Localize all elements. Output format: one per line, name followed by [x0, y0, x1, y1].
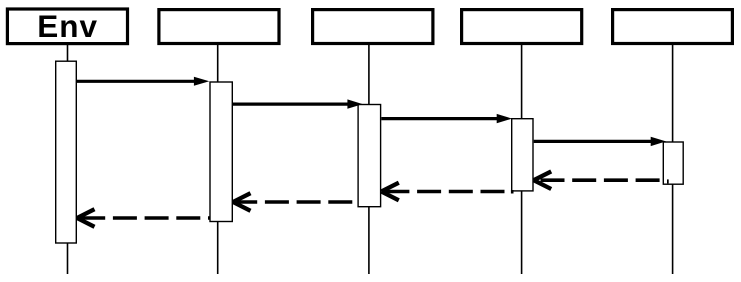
return arrow 2 (3 to 2): [233, 193, 357, 211]
activation bar 3: [358, 105, 381, 207]
call arrow 4 (4 to 5): [534, 137, 666, 146]
activation bar 2: [210, 82, 232, 222]
residual nub at activation bar 4 bottom-left corner: [511, 190, 514, 194]
lifeline 1 (Env): [67, 45, 69, 274]
lifeline 4: [521, 45, 523, 274]
return arrow 1 (2 to Env): [77, 209, 210, 227]
activation bar 4: [512, 119, 533, 191]
object box 2: [159, 10, 279, 44]
activation bar 5: [663, 142, 683, 184]
return arrow 3 (4 to 3): [381, 183, 511, 201]
activation bar 1 (Env): [56, 61, 77, 243]
lifeline 3: [368, 45, 370, 274]
lifeline 5: [672, 45, 674, 274]
svg-text:Env: Env: [37, 8, 98, 44]
object box 3: [313, 10, 433, 44]
call arrow 2 (2 to 3): [233, 99, 363, 108]
return arrow 4 (5 to 4): [534, 171, 663, 189]
lifeline 2: [217, 45, 219, 274]
call arrow 1 (Env to 2): [77, 77, 209, 86]
residual tick inside activation bar 5: [667, 179, 669, 183]
object box 4: [462, 10, 582, 44]
object box 5: [613, 10, 733, 44]
object box Env: [7, 8, 127, 44]
call arrow 3 (3 to 4): [381, 114, 512, 123]
